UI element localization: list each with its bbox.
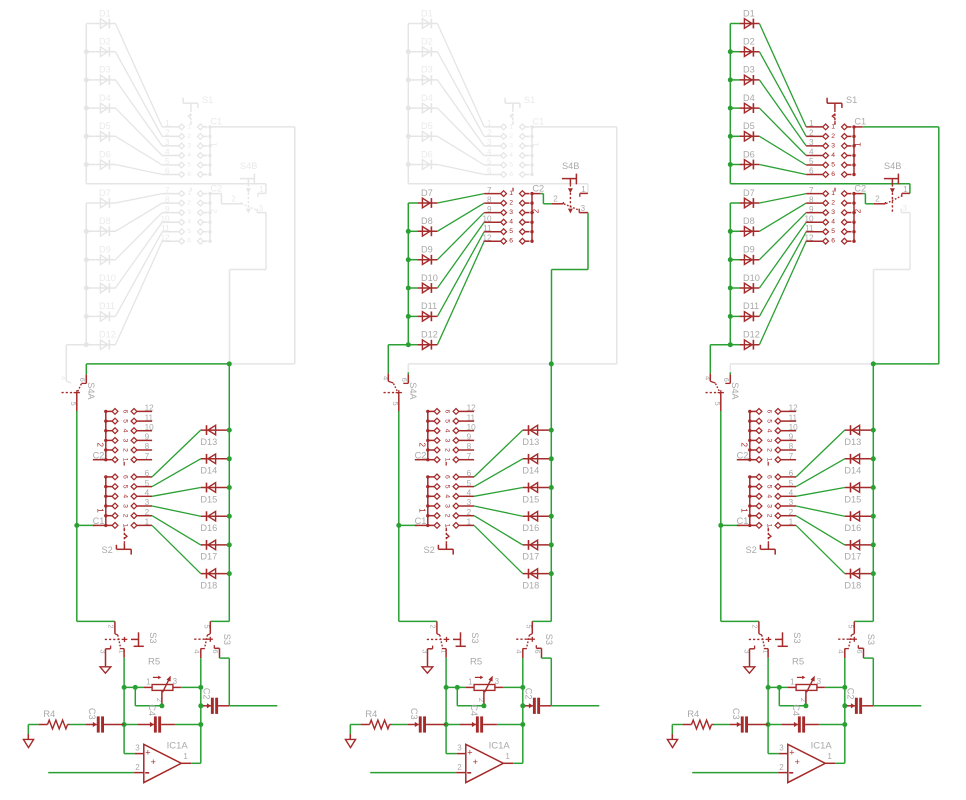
svg-text:1: 1	[809, 119, 814, 128]
switch S3 pin 4 and arm	[192, 635, 207, 658]
wire S4B pin 3 to lower bus	[230, 213, 267, 364]
switch S3 (left half) actuator	[105, 632, 158, 646]
svg-text:D11: D11	[743, 301, 759, 311]
switch S4A pin 4 contact	[703, 373, 715, 383]
junction D8 bus	[728, 229, 733, 234]
connector C1 (lower)	[415, 469, 475, 531]
svg-text:D14: D14	[844, 466, 861, 476]
svg-text:9: 9	[467, 433, 472, 442]
junction R5 pin 2	[803, 703, 808, 708]
wire C1 pin 2 to D17	[474, 516, 523, 545]
svg-text:1: 1	[740, 508, 749, 513]
wire right bus to S3 pin 5	[854, 620, 873, 622]
svg-text:6: 6	[165, 167, 170, 176]
svg-text:C4: C4	[791, 704, 801, 716]
wire S3 pin 1 down to op-amp	[446, 658, 457, 754]
wire D1 to C1 pin 1	[759, 24, 806, 127]
wire D1 to C1 pin 1	[115, 24, 162, 127]
potentiometer R5	[466, 656, 503, 704]
svg-text:5: 5	[443, 485, 450, 489]
wire op-amp pin 2 input	[48, 772, 134, 774]
diode D15	[522, 483, 549, 505]
junction D18 right bus	[871, 571, 876, 576]
svg-text:9: 9	[789, 433, 794, 442]
svg-text:C2: C2	[415, 451, 427, 461]
svg-text:2: 2	[457, 763, 462, 772]
wire R4 to C3	[70, 724, 87, 726]
wire D10 to C2 pin 4	[115, 222, 162, 288]
svg-text:D4: D4	[99, 93, 111, 103]
svg-text:4: 4	[765, 429, 772, 433]
wire op-amp pin 2 input	[692, 772, 778, 774]
svg-text:1: 1	[443, 458, 450, 462]
svg-text:8: 8	[467, 442, 472, 451]
wire D12 bus to S4A pin 4	[66, 345, 86, 374]
junction left bus / C1	[718, 523, 723, 528]
diode D2	[739, 37, 759, 57]
svg-text:D17: D17	[522, 552, 539, 562]
svg-text:5: 5	[509, 228, 513, 235]
resistor R4	[361, 709, 392, 729]
wire D6 to C1 pin 6	[115, 165, 162, 175]
svg-text:C2: C2	[532, 183, 544, 193]
wire R5 row	[446, 686, 523, 688]
svg-text:3: 3	[903, 204, 908, 213]
ground symbol (S3 pin 3)	[100, 667, 111, 673]
connector C1 (upper)	[806, 117, 866, 178]
switch S4A pin 4 contact	[59, 373, 71, 383]
svg-text:2: 2	[765, 514, 772, 518]
svg-text:D8: D8	[421, 216, 433, 226]
svg-text:10: 10	[145, 423, 155, 432]
wire R5 pin 2 loop	[779, 687, 806, 705]
wire D1-D6 common bus	[729, 24, 731, 184]
wire C4 stubs	[782, 724, 819, 726]
junction D13 right bus	[549, 428, 554, 433]
svg-text:S1: S1	[524, 95, 535, 105]
wire S4A pin 6 to junction	[86, 364, 229, 375]
svg-text:2: 2	[418, 443, 427, 448]
resistor R4	[683, 709, 714, 729]
svg-text:2: 2	[553, 195, 558, 204]
svg-text:4: 4	[831, 219, 835, 226]
svg-text:D17: D17	[200, 552, 217, 562]
svg-text:S1: S1	[202, 95, 213, 105]
svg-text:R5: R5	[148, 656, 160, 667]
switch S4A pin 6 contact	[400, 375, 409, 384]
wire bus to D1	[86, 23, 95, 25]
junction R5 row left	[766, 685, 771, 690]
svg-text:4: 4	[192, 649, 201, 653]
svg-text:1: 1	[145, 518, 150, 527]
junction R5 pin 1 / loop	[133, 685, 138, 690]
diode D13	[844, 425, 871, 447]
wire C1 pin 6 to D13	[152, 430, 201, 477]
wire D7-D12 common bus	[729, 203, 731, 345]
svg-text:3: 3	[165, 138, 170, 147]
svg-text:5: 5	[831, 161, 835, 168]
svg-text:8: 8	[165, 195, 170, 204]
svg-text:4: 4	[509, 219, 513, 226]
junction D16 right bus	[871, 514, 876, 519]
junction D13 right bus	[227, 428, 232, 433]
diode D10	[417, 273, 438, 293]
svg-text:3: 3	[121, 439, 128, 443]
svg-text:2: 2	[187, 133, 191, 140]
diode D9	[739, 245, 759, 265]
junction D10 bus	[406, 286, 411, 291]
diode D18	[200, 569, 227, 591]
svg-text:6: 6	[765, 410, 772, 414]
svg-text:3: 3	[443, 439, 450, 443]
wire C1 pin 6 to D13	[474, 430, 523, 477]
diode D7	[417, 188, 437, 208]
diode D18	[844, 569, 871, 591]
svg-text:D18: D18	[844, 580, 861, 590]
wire bus to D6	[730, 164, 739, 166]
svg-text:1: 1	[903, 185, 908, 194]
diode D12	[417, 330, 438, 350]
pushbutton S2	[102, 526, 132, 555]
diode D17	[522, 540, 549, 562]
switch S4A pin 4 contact	[381, 373, 393, 383]
junction D17 right bus	[549, 542, 554, 547]
wire left bus to lower C1	[399, 524, 418, 526]
svg-text:D9: D9	[99, 245, 111, 255]
svg-text:4: 4	[765, 494, 772, 498]
wire D12 to C2 pin 6	[115, 241, 162, 345]
junction D8 bus	[84, 229, 89, 234]
wire left bus to lower C1	[721, 524, 740, 526]
svg-text:3: 3	[765, 504, 772, 508]
wire C1 to right vertical bus	[219, 127, 295, 364]
junction D14 right bus	[871, 456, 876, 461]
junction C4 row left	[444, 722, 449, 727]
svg-text:C4: C4	[147, 704, 157, 716]
svg-text:4: 4	[145, 489, 150, 498]
svg-text:1: 1	[467, 518, 472, 527]
svg-text:D13: D13	[844, 437, 861, 447]
junction D16 right bus	[549, 514, 554, 519]
wire bus to D7	[408, 202, 417, 204]
junction R5 pin 2	[159, 703, 164, 708]
wire D7 to C2 pin 1	[759, 194, 806, 203]
svg-text:11: 11	[483, 224, 492, 233]
svg-text:IC1A: IC1A	[489, 740, 511, 751]
wire D1-D6 bus to S4B pin 1	[730, 184, 910, 194]
svg-text:1: 1	[121, 458, 128, 462]
diode D8	[95, 216, 115, 236]
junction D12 bus	[728, 342, 733, 347]
svg-text:1: 1	[468, 677, 473, 686]
connector C1 (upper)	[162, 117, 222, 178]
wire C4 row	[446, 724, 523, 726]
junction R5 pin 1 / loop	[777, 685, 782, 690]
svg-text:3: 3	[765, 439, 772, 443]
svg-text:10: 10	[160, 214, 170, 223]
switch S4B pole (pins 1,2)	[874, 185, 910, 204]
svg-text:C2: C2	[737, 451, 749, 461]
wire bus to D7	[730, 202, 739, 204]
svg-text:10: 10	[804, 214, 814, 223]
wire C1 pin 2 to D17	[152, 516, 201, 545]
wire C2 left	[201, 705, 203, 707]
switch S3 pin 1 and arm	[440, 635, 447, 658]
svg-text:2: 2	[428, 624, 437, 628]
diode D4	[739, 93, 759, 113]
svg-text:11: 11	[161, 224, 170, 233]
svg-text:3: 3	[187, 142, 191, 149]
wire D1-D6 bus to S4B pin 1	[408, 184, 588, 194]
diode D8	[417, 216, 437, 236]
switch S3 pin 5	[203, 621, 212, 635]
svg-text:D6: D6	[743, 149, 755, 159]
svg-text:5: 5	[789, 479, 794, 488]
svg-text:6: 6	[831, 238, 835, 245]
svg-text:D8: D8	[99, 216, 111, 226]
svg-text:D5: D5	[743, 121, 755, 131]
wire bus to D7	[86, 202, 95, 204]
svg-text:5: 5	[467, 479, 472, 488]
junction C2 row right	[520, 703, 525, 708]
potentiometer R5	[788, 656, 825, 704]
svg-text:S2: S2	[746, 545, 757, 555]
svg-text:12: 12	[160, 233, 170, 242]
diode D4	[95, 93, 115, 113]
svg-text:1: 1	[418, 508, 427, 513]
switch S3 pin 2	[428, 621, 439, 635]
wire R4 to ground	[350, 725, 360, 735]
svg-text:6: 6	[509, 171, 513, 178]
svg-text:2: 2	[779, 763, 784, 772]
svg-text:S4B: S4B	[884, 161, 901, 171]
svg-text:C1: C1	[737, 516, 749, 526]
svg-text:2: 2	[487, 129, 492, 138]
wire bus to D11	[408, 315, 417, 317]
diode D13	[522, 425, 549, 447]
wire D8 to C2 pin 2	[437, 203, 484, 231]
potentiometer R5	[144, 656, 181, 704]
wire C1 pin 1 to D18	[796, 525, 845, 573]
diode D12	[95, 330, 116, 350]
svg-text:D9: D9	[421, 245, 433, 255]
svg-text:6: 6	[467, 469, 472, 478]
svg-text:C2: C2	[210, 183, 222, 193]
wire R4 to C3	[714, 724, 731, 726]
ground symbol (R4)	[345, 734, 355, 748]
diode D3	[95, 65, 115, 85]
svg-text:1: 1	[789, 518, 794, 527]
switch S4B actuator	[884, 161, 901, 214]
junction D15 right bus	[871, 485, 876, 490]
svg-text:3: 3	[779, 744, 784, 753]
junction D6 bus	[406, 162, 411, 167]
svg-text:C2: C2	[201, 688, 211, 700]
wire bus to D12	[86, 344, 95, 346]
svg-text:D2: D2	[743, 37, 755, 47]
junction D2 bus	[84, 49, 89, 54]
connector C2 (upper)	[804, 183, 866, 244]
wire D11 to C2 pin 5	[437, 232, 484, 317]
capacitor C2	[523, 688, 540, 714]
switch S3 pin 1 and arm	[118, 635, 125, 658]
wire S4A pin 6 to junction	[730, 364, 873, 375]
junction D8 bus	[406, 229, 411, 234]
svg-text:5: 5	[765, 485, 772, 489]
wire left bus to S3 pin 2	[721, 620, 759, 622]
junction D10 bus	[84, 286, 89, 291]
switch S4B throw pin 3 contact	[579, 204, 588, 213]
svg-text:S4B: S4B	[562, 161, 579, 171]
svg-text:D1: D1	[99, 8, 111, 18]
svg-text:D9: D9	[743, 245, 755, 255]
wire D8 to C2 pin 2	[115, 203, 162, 231]
svg-text:2: 2	[875, 195, 880, 204]
diode D14	[844, 454, 871, 476]
diode D5	[95, 121, 115, 141]
wire C2 left	[523, 705, 525, 707]
diode D15	[200, 483, 227, 505]
junction D14 right bus	[549, 456, 554, 461]
wire right vertical bus (lower)	[228, 364, 230, 622]
svg-text:3: 3	[509, 209, 513, 216]
junction D6 bus	[84, 162, 89, 167]
diode D7	[95, 188, 115, 208]
svg-text:D10: D10	[99, 273, 116, 283]
svg-text:7: 7	[467, 452, 472, 461]
svg-text:6: 6	[187, 238, 191, 245]
diode D16	[200, 511, 227, 533]
diode D6	[95, 149, 115, 169]
svg-text:3: 3	[259, 204, 264, 213]
switch S3 (left half) actuator	[749, 632, 802, 646]
svg-text:2: 2	[121, 448, 128, 452]
wire D5 to C1 pin 5	[759, 136, 806, 165]
svg-text:2: 2	[853, 208, 862, 213]
svg-text:12: 12	[804, 233, 814, 242]
wire S3 pin 4 down to op-amp output	[200, 658, 202, 763]
wire bus to D5	[408, 135, 417, 137]
wire bus to D5	[86, 135, 95, 137]
wire bus to D2	[408, 51, 417, 53]
junction D11 bus	[728, 314, 733, 319]
svg-text:6: 6	[509, 238, 513, 245]
svg-text:D12: D12	[421, 330, 438, 340]
wire right vertical bus (lower)	[550, 364, 552, 622]
svg-text:D5: D5	[421, 121, 433, 131]
svg-text:5: 5	[165, 157, 170, 166]
pushbutton S2	[746, 526, 776, 555]
junction R5 row right	[842, 685, 847, 690]
svg-text:6: 6	[855, 649, 864, 653]
junction C4 row left	[766, 722, 771, 727]
wire C1 pin 5 to D14	[152, 459, 201, 487]
svg-text:1: 1	[531, 142, 540, 147]
wire D11 to C2 pin 5	[115, 232, 162, 317]
svg-text:10: 10	[482, 214, 492, 223]
svg-text:S1: S1	[846, 95, 857, 105]
wire bus to D3	[408, 79, 417, 81]
wire S3 pin 1 down to op-amp	[124, 658, 135, 754]
svg-text:+: +	[145, 748, 150, 758]
wire R5 pin 2 loop	[457, 687, 484, 705]
wire D12 to C2 pin 6	[759, 241, 806, 345]
switch S4A actuator	[706, 382, 741, 400]
svg-text:D7: D7	[743, 188, 755, 198]
junction left bus / C1	[396, 523, 401, 528]
svg-text:3: 3	[789, 498, 794, 507]
svg-text:D7: D7	[99, 188, 111, 198]
wire op-amp output to bus	[191, 762, 201, 764]
ground symbol (R4)	[23, 734, 33, 748]
junction C4 row left	[122, 722, 127, 727]
wire R5 row	[124, 686, 201, 688]
svg-text:5: 5	[487, 157, 492, 166]
connector C2 (lower)	[93, 404, 155, 466]
diode D16	[522, 511, 549, 533]
svg-text:D6: D6	[421, 149, 433, 159]
switch S3 (right half) actuator	[838, 634, 876, 645]
capacitor C3	[409, 708, 426, 733]
wire left bus to S3 pin 2	[399, 620, 437, 622]
diode D1	[417, 8, 437, 28]
connector C2 (upper)	[482, 183, 544, 244]
switch S4A actuator	[384, 382, 419, 400]
svg-text:D12: D12	[743, 330, 760, 340]
svg-text:1: 1	[146, 677, 151, 686]
svg-text:S3: S3	[866, 634, 876, 645]
wire C1 pin 1 to D18	[474, 525, 523, 573]
junction D5 bus	[84, 134, 89, 139]
svg-text:C4: C4	[469, 704, 479, 716]
junction D12 bus	[406, 342, 411, 347]
diode D14	[200, 454, 227, 476]
wire bus to D9	[730, 259, 739, 261]
switch S4B throw pin 3 contact	[257, 204, 266, 213]
svg-text:IC1A: IC1A	[811, 740, 833, 751]
svg-text:C2: C2	[845, 688, 855, 700]
svg-text:7: 7	[487, 186, 492, 195]
wire D1-D6 common bus	[407, 24, 409, 184]
svg-text:D4: D4	[421, 93, 433, 103]
junction D4 bus	[406, 106, 411, 111]
op-amp IC1A	[778, 740, 835, 782]
svg-text:4: 4	[809, 148, 814, 157]
svg-text:6: 6	[400, 378, 409, 382]
junction D15 right bus	[549, 485, 554, 490]
svg-text:4: 4	[467, 489, 472, 498]
svg-text:S4B: S4B	[240, 161, 257, 171]
wire C1 pin 2 to D17	[796, 516, 845, 545]
svg-text:D7: D7	[421, 188, 433, 198]
svg-text:6: 6	[487, 167, 492, 176]
wire C1 pin 4 to D15	[474, 488, 523, 497]
svg-text:1: 1	[165, 119, 170, 128]
wire D4 to C1 pin 4	[437, 108, 484, 155]
svg-text:D16: D16	[844, 523, 861, 533]
svg-text:S3: S3	[222, 634, 232, 645]
junction D17 right bus	[871, 542, 876, 547]
junction C4 row right	[520, 722, 525, 727]
wire bus to D5	[730, 135, 739, 137]
svg-text:4: 4	[121, 429, 128, 433]
wire bus to D2	[86, 51, 95, 53]
junction node right bus top	[871, 361, 876, 366]
wire C2 left	[845, 705, 847, 707]
diode D5	[417, 121, 437, 141]
switch S4A common pin 5 and arm	[69, 384, 81, 411]
svg-text:6: 6	[187, 171, 191, 178]
